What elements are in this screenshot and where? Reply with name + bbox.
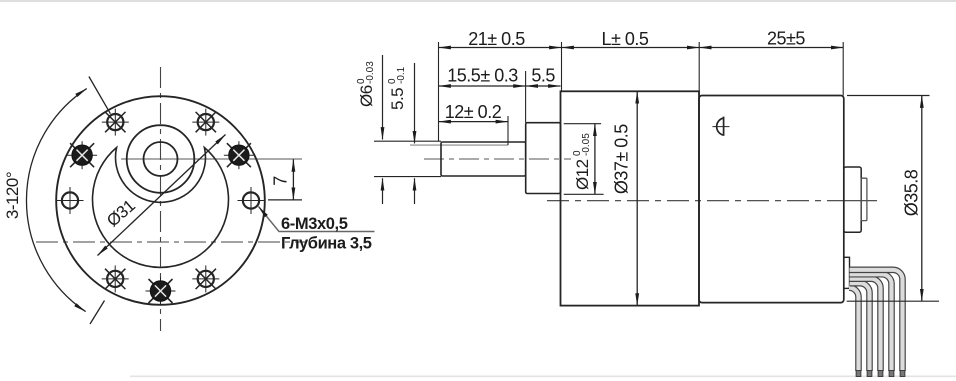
svg-text:6-M3x0,5: 6-M3x0,5 <box>281 215 348 233</box>
svg-text:7: 7 <box>271 176 291 186</box>
svg-text:-0.05: -0.05 <box>581 133 592 156</box>
svg-text:5.5: 5.5 <box>388 88 407 110</box>
svg-text:Ø37± 0.5: Ø37± 0.5 <box>612 124 632 194</box>
svg-text:Ø12: Ø12 <box>573 159 592 190</box>
svg-text:-0.1: -0.1 <box>396 66 407 84</box>
svg-text:3-120°: 3-120° <box>3 172 22 219</box>
svg-text:25±5: 25±5 <box>767 29 805 49</box>
svg-text:Ø6: Ø6 <box>357 85 376 107</box>
svg-text:Ø35.8: Ø35.8 <box>902 169 922 216</box>
svg-text:12± 0.2: 12± 0.2 <box>445 102 502 122</box>
svg-text:-0.03: -0.03 <box>365 61 376 84</box>
svg-text:15.5± 0.3: 15.5± 0.3 <box>447 66 518 86</box>
svg-text:5.5: 5.5 <box>531 66 555 86</box>
svg-text:Глубина 3,5: Глубина 3,5 <box>281 235 372 253</box>
svg-text:21± 0.5: 21± 0.5 <box>468 29 525 49</box>
svg-text:L± 0.5: L± 0.5 <box>602 29 649 49</box>
